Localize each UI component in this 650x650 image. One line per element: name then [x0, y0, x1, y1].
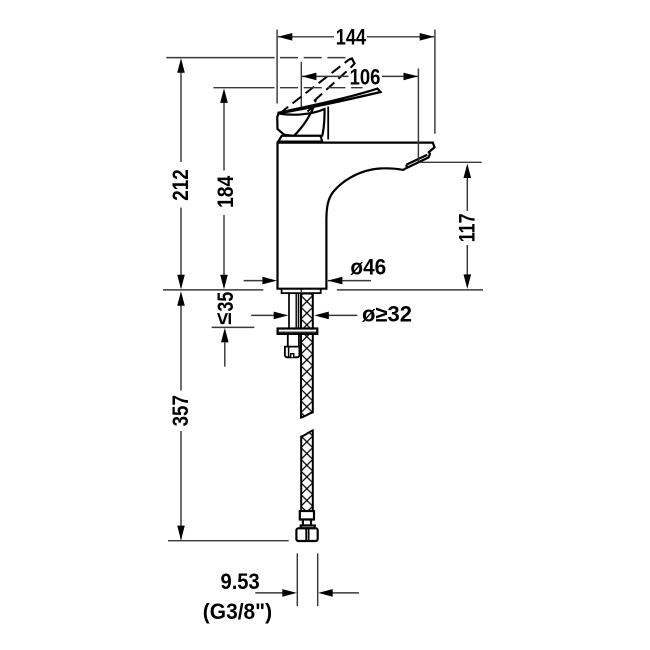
node clip — [285, 347, 300, 358]
wire dim 212 line — [180, 63, 182, 163]
node handle escutcheon — [277, 109, 324, 136]
wire dim 106 line — [302, 75, 349, 77]
node arrow 144 right — [420, 33, 435, 41]
node ferrule — [300, 511, 314, 520]
node arrow 184 bottom — [220, 275, 228, 290]
node base plate — [282, 289, 321, 293]
node handle raised lower dashed line — [314, 66, 353, 101]
wire dim 9.53 extension lines — [296, 553, 298, 606]
svg-text:9.53: 9.53 — [221, 569, 260, 594]
node arrow 106 right — [404, 73, 419, 81]
node arrow 212 bottom — [177, 275, 185, 290]
wire centerline vertical x=301.3 — [300, 62, 302, 292]
svg-text:(G3/8"): (G3/8") — [203, 599, 272, 624]
svg-text:≤: ≤ — [211, 313, 236, 325]
node washer flange — [278, 329, 318, 334]
node arrow 357 top — [177, 291, 185, 306]
node handle raised upper dashed line — [280, 59, 350, 113]
wire deck reference line — [163, 289, 263, 291]
wire dim 144 extension left — [276, 30, 278, 104]
wire dim 144 extension right — [434, 30, 436, 134]
node hex nut — [296, 528, 317, 541]
node arrow 35 bottom — [221, 328, 229, 343]
node handle lever blade — [279, 89, 381, 114]
node collar under handle — [278, 136, 322, 142]
svg-text:212: 212 — [168, 169, 193, 200]
svg-text:184: 184 — [213, 175, 238, 208]
node arrow 144 left — [278, 33, 293, 41]
node arrow o46 right — [328, 277, 343, 285]
node arrow o46 left — [262, 277, 277, 285]
wire dim 117 reference line — [421, 161, 482, 163]
wire dim 357 bottom reference line — [168, 540, 289, 542]
svg-text:106: 106 — [350, 64, 381, 89]
node hose upper segment — [301, 294, 313, 418]
wire dim 9.53 line — [255, 592, 283, 594]
wire dim 144 line — [278, 36, 334, 38]
node handle raised pivot arc — [308, 100, 316, 112]
wire dim o32 line — [251, 314, 274, 316]
wire dim 117 line — [466, 167, 468, 211]
node spout neck joint — [327, 107, 329, 140]
wire dim o46 line — [244, 280, 263, 282]
node handle raised tip — [349, 59, 354, 66]
node aerator slot — [406, 155, 427, 168]
node arrow 106 left — [302, 73, 317, 81]
node tube below flange — [287, 334, 289, 347]
svg-text:144: 144 — [336, 25, 367, 50]
node arrow 9.53 left — [282, 589, 297, 597]
node arrow 117 bottom — [464, 274, 472, 289]
node arrow 184 top — [220, 88, 228, 103]
svg-text:117: 117 — [455, 214, 480, 243]
node hose lower segment — [301, 430, 313, 511]
wire dim 184 reference line — [213, 87, 274, 89]
node faucet body and spout — [278, 143, 435, 289]
node arrow 212 top — [177, 58, 185, 73]
node neck — [303, 520, 311, 526]
node arrow o32 left — [274, 312, 289, 320]
svg-text:ø≥32: ø≥32 — [362, 302, 412, 327]
svg-text:35: 35 — [213, 292, 238, 312]
node threaded stud — [289, 293, 299, 328]
wire dim 212 reference line — [166, 57, 274, 59]
node arrow 117 top — [464, 164, 472, 179]
node collar2 — [301, 526, 315, 529]
node handle seam — [294, 107, 314, 135]
node arrow 357 bottom — [177, 526, 185, 541]
wire dim 106 extension right — [417, 69, 419, 162]
wire flange reference line — [212, 326, 255, 328]
node arrow 9.53 right — [318, 589, 333, 597]
svg-text:357: 357 — [168, 395, 193, 426]
wire dim 357 line — [180, 295, 182, 391]
node arrow o32 right — [314, 312, 329, 320]
wire dim 184 line — [223, 93, 225, 171]
svg-text:ø46: ø46 — [350, 255, 386, 280]
